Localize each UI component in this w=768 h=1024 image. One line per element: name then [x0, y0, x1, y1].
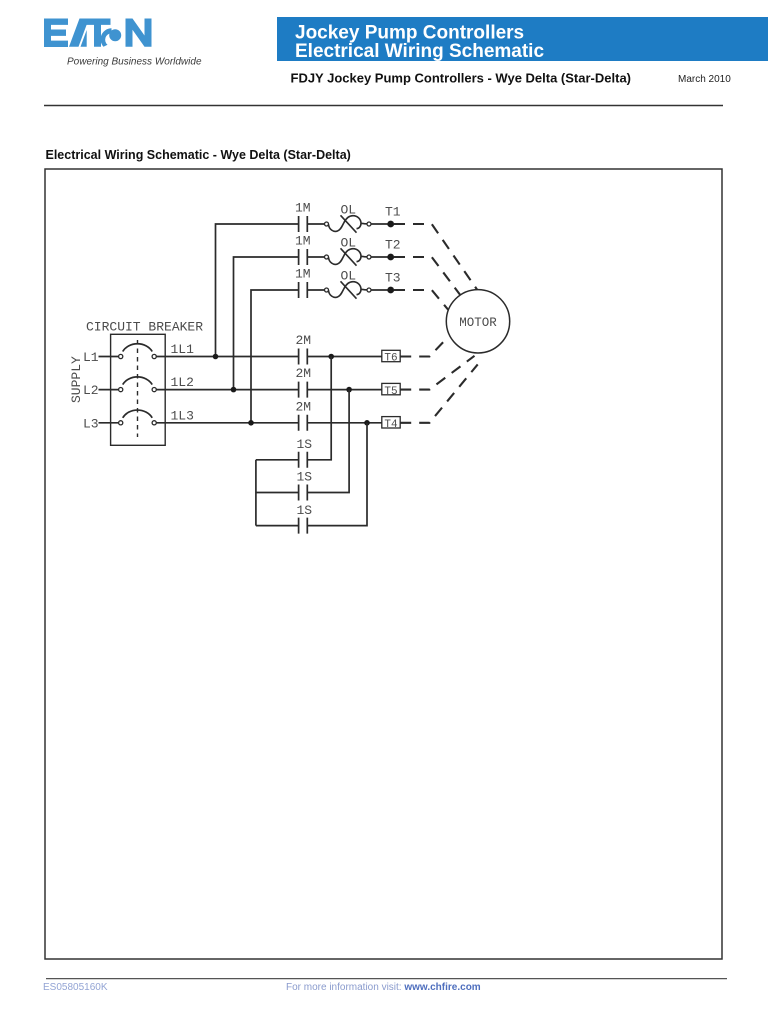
letter T with hook — [85, 19, 111, 47]
svg-text:March 2010: March 2010 — [678, 74, 731, 85]
letter E — [44, 19, 68, 48]
svg-text:1L2: 1L2 — [171, 375, 194, 390]
letter O dot — [109, 29, 121, 41]
motor M — [446, 290, 509, 353]
blue title band — [277, 17, 768, 61]
overload heater OL row T2 — [325, 248, 372, 265]
breaker trip link (dashed) — [137, 340, 139, 437]
circuit breaker CB box — [111, 334, 166, 445]
wire wye row1 left — [256, 459, 299, 461]
svg-text:CIRCUIT BREAKER: CIRCUIT BREAKER — [86, 320, 203, 335]
terminal dot T2 — [387, 254, 394, 261]
wire L2 stub — [99, 389, 119, 391]
svg-text:L1: L1 — [83, 350, 99, 365]
svg-text:1M: 1M — [295, 201, 311, 216]
footer rule — [46, 978, 727, 980]
contactor contact 1S row3 — [299, 423, 367, 534]
svg-text:T1: T1 — [385, 205, 401, 220]
contactor contact 2M row L1 — [299, 349, 382, 365]
wire: OL to T2 dot — [371, 256, 391, 258]
terminal box T4 — [382, 417, 400, 428]
contactor contact 1S row2 — [299, 390, 350, 501]
wire wye row2 left — [256, 492, 299, 494]
svg-text:1S: 1S — [297, 437, 313, 452]
junction dot L2 feed — [231, 387, 237, 393]
breaker pole arc L3 — [123, 410, 153, 418]
contactor contact 1M row T2 — [299, 249, 325, 265]
svg-text:1L1: 1L1 — [171, 342, 195, 357]
wire L1 stub — [99, 356, 119, 358]
svg-text:For more information visit: ww: For more information visit: www.chfire.c… — [286, 982, 481, 993]
wire: feed riser L3 to 1M row T3 — [251, 290, 299, 423]
svg-text:Electrical Wiring Schematic -: Electrical Wiring Schematic - Wye Delta … — [46, 148, 351, 162]
wire 1L3 — [156, 422, 298, 424]
svg-text:T4: T4 — [384, 419, 398, 431]
svg-text:FDJY Jockey Pump Controllers -: FDJY Jockey Pump Controllers - Wye Delta… — [291, 71, 632, 86]
svg-text:1M: 1M — [295, 234, 311, 249]
wire: OL to T1 dot — [371, 223, 391, 225]
terminal box T5 — [382, 383, 400, 394]
letter N — [126, 19, 152, 47]
svg-text:OL: OL — [341, 203, 357, 218]
contactor contact 1M row T3 — [299, 282, 325, 298]
breaker pole terminals — [119, 354, 157, 425]
svg-text:OL: OL — [341, 269, 357, 284]
junction dot T5 riser — [346, 387, 352, 393]
overload heater OL row T3 — [325, 281, 372, 298]
schematic border — [45, 169, 722, 959]
svg-text:T2: T2 — [385, 238, 401, 253]
terminal dot T1 — [387, 221, 394, 228]
breaker pole arc L1 — [123, 344, 153, 352]
svg-text:L3: L3 — [83, 417, 99, 432]
svg-text:ES05805160K: ES05805160K — [43, 982, 108, 993]
dashed leads T1/T2/T3 to motor — [394, 224, 478, 423]
junction dot T6 riser — [328, 354, 334, 360]
wire wye row3 left — [256, 525, 299, 527]
svg-text:1L3: 1L3 — [171, 409, 194, 424]
Eaton logo — [44, 19, 152, 48]
contactor contact 1M row T1 — [299, 216, 325, 232]
svg-text:T5: T5 — [384, 386, 397, 398]
junction dot L3 feed — [248, 420, 254, 426]
svg-text:MOTOR: MOTOR — [459, 316, 497, 330]
wire 1L1 — [156, 356, 298, 358]
svg-text:SUPPLY: SUPPLY — [69, 356, 84, 403]
T hook crescent around dot — [101, 28, 112, 47]
contactor contact 2M row L3 — [299, 415, 382, 431]
overload heater OL row T1 — [325, 215, 372, 232]
wire L3 stub — [99, 422, 119, 424]
contactor contact 2M row L2 — [299, 382, 382, 398]
junction dot L1 feed — [213, 354, 219, 360]
svg-text:T3: T3 — [385, 271, 401, 286]
svg-text:Powering Business Worldwide: Powering Business Worldwide — [67, 57, 202, 68]
terminal box T6 — [382, 350, 400, 361]
svg-text:T6: T6 — [384, 353, 397, 365]
wire: feed riser L2 to 1M row T2 — [234, 257, 299, 390]
contactor contact 1S row1 — [299, 357, 332, 468]
junction dot T4 riser — [364, 420, 370, 426]
svg-text:L2: L2 — [83, 383, 99, 398]
wire: OL to T3 dot — [371, 289, 391, 291]
header rule — [44, 105, 723, 107]
svg-text:OL: OL — [341, 236, 357, 251]
svg-text:2M: 2M — [296, 400, 312, 415]
wire 1L2 — [156, 389, 298, 391]
svg-text:1S: 1S — [297, 470, 313, 485]
letter A — [69, 19, 87, 47]
terminal dot T3 — [387, 287, 394, 294]
svg-text:2M: 2M — [296, 333, 312, 348]
breaker pole arc L2 — [123, 377, 153, 385]
svg-text:2M: 2M — [296, 366, 312, 381]
svg-text:1M: 1M — [295, 267, 311, 282]
wye point common vertical — [255, 460, 257, 526]
wire: feed riser L1 to 1M row T1 — [216, 224, 299, 357]
svg-text:Electrical Wiring Schematic: Electrical Wiring Schematic — [295, 41, 544, 62]
svg-text:1S: 1S — [297, 503, 313, 518]
